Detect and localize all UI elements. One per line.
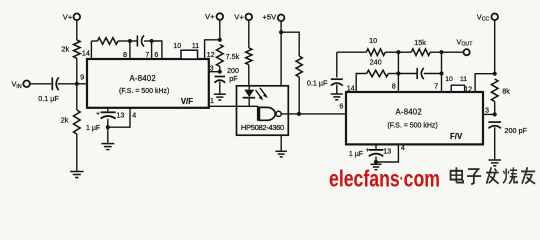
wire node C to pin 6 corner: [152, 41, 162, 59]
svg-text:10: 10: [369, 36, 377, 45]
svg-text:0.1 µF: 0.1 µF: [38, 94, 59, 103]
IC U3 A-8402 F/V converter box: [346, 92, 483, 144]
svg-text:VCC: VCC: [477, 12, 490, 22]
svg-text:7: 7: [145, 50, 149, 59]
wire pin 14 (U1) up to feedback rail: [90, 41, 92, 59]
watermark elecfans.com (red): [329, 166, 440, 192]
resistor R1 2k (V+ to pin 9 node): [74, 40, 81, 58]
terminal V+ (LED supply): [234, 12, 252, 21]
svg-text:A-8402: A-8402: [396, 107, 422, 116]
wire rail corner to C5: [336, 52, 338, 77]
wire pin 4 (U3) to node O: [378, 145, 399, 163]
svg-text:V+: V+: [63, 12, 73, 21]
wire LED cathode to pin 1 line: [248, 99, 250, 107]
wire output rail 1 left: [337, 51, 367, 53]
svg-text:1: 1: [210, 96, 214, 105]
pin 11 label (U3): [460, 76, 467, 83]
pin 7 label (U1): [145, 50, 149, 59]
node H (pull-up / output junction): [297, 112, 301, 116]
svg-text:3: 3: [485, 105, 489, 114]
terminal V+ (U1 reference supply): [205, 12, 223, 21]
svg-text:V/F: V/F: [181, 97, 193, 106]
wire +5V branch to pull-up: [281, 32, 299, 56]
svg-text:A-8402: A-8402: [130, 74, 156, 83]
svg-text:4: 4: [132, 110, 136, 119]
node L (rail2/pin7 junction): [439, 71, 443, 75]
watermark chinese char dian: [451, 167, 464, 182]
svg-text:6: 6: [339, 102, 343, 111]
U3 label F/V: [450, 132, 463, 141]
svg-text:200 pF: 200 pF: [505, 126, 528, 135]
svg-text:+: +: [96, 111, 100, 118]
node J (rail1/Vout junction): [439, 50, 443, 54]
svg-text:10: 10: [445, 76, 453, 83]
wire node J to V_OUT: [442, 51, 464, 53]
capacitor C3 200pF (U1 pin 3): [215, 68, 239, 83]
wire rail 2 / pin 14 (U3): [356, 74, 367, 92]
pin 11 label (U1): [192, 43, 199, 50]
wire pin 4 (U1) to node F: [110, 108, 131, 127]
terminal V_OUT: [457, 37, 474, 55]
svg-text:11: 11: [460, 76, 467, 83]
pin 13 label (U1): [116, 110, 124, 119]
LED light arrow 2: [260, 88, 268, 98]
wire node A to R2: [76, 84, 78, 110]
node A (pin 9 junction): [75, 82, 79, 86]
ground (U3 timing cap): [371, 164, 382, 169]
svg-text:11: 11: [192, 43, 199, 50]
wire R1 to node A: [76, 58, 78, 84]
wire C3 to ground: [219, 82, 221, 94]
pin 6 label (U3): [339, 102, 343, 111]
jumper link pins 10-11 (U3): [451, 85, 464, 92]
capacitor C4 1uF (U1 pin 13, polarized): [86, 111, 116, 133]
pin 3 label (U3): [485, 105, 489, 114]
svg-text:2k: 2k: [61, 116, 69, 125]
optocoupler U2 HP5082-4360 box: [237, 86, 289, 135]
node F (U1 timing cap junction): [106, 125, 110, 129]
wire pin 7 (U1): [151, 41, 153, 59]
LED D1 triangle: [244, 90, 254, 98]
pin 10 label (U3): [445, 76, 453, 83]
svg-text:7: 7: [434, 81, 438, 90]
resistor R8 15k: [411, 38, 430, 56]
wire R2 to ground: [76, 134, 78, 171]
wire V_CC down to node M: [494, 20, 496, 74]
label R10 8k: [502, 86, 510, 95]
label R2 2k: [61, 116, 69, 125]
ground (U3 pin 3 cap): [488, 160, 501, 166]
pin 12 label (U1): [207, 50, 215, 59]
wire V_IN to C1: [30, 83, 51, 85]
ground (optocoupler): [275, 151, 287, 157]
wire C1 to node A: [58, 83, 77, 85]
resistor R4 7.5k: [217, 45, 224, 67]
node E (pin 3 junction, U1): [218, 70, 222, 74]
wire pin 1 (U1) to optocoupler LED cathode: [209, 105, 258, 107]
label R1 2k: [61, 45, 69, 54]
photogate U2 input bar: [257, 107, 260, 121]
resistor R2 2k (pin 9 node to ground): [74, 110, 81, 134]
capacitor C6 (U3 feedback): [417, 68, 424, 79]
wire pin 8 (U3): [397, 74, 399, 93]
wire C8 to ground node: [375, 156, 377, 164]
wire pin 8 (U1): [129, 41, 131, 59]
photogate U2 D-body: [259, 107, 275, 120]
svg-text:14: 14: [82, 49, 90, 58]
svg-text:12: 12: [464, 85, 472, 94]
pin 3 label (U1): [210, 63, 214, 72]
wire pin 7 (U3): [441, 74, 443, 93]
wire R4 to node E: [219, 67, 221, 72]
pin 14 label (U1): [82, 49, 90, 58]
svg-text:4: 4: [401, 143, 405, 152]
svg-text:VOUT: VOUT: [457, 37, 474, 47]
pin 7 label (U3): [434, 81, 438, 90]
watermark chinese char fa: [486, 167, 499, 183]
svg-text:13: 13: [116, 110, 124, 119]
svg-text:+: +: [366, 147, 370, 154]
svg-text:13: 13: [383, 146, 391, 155]
capacitor C2 (U1 feedback): [137, 35, 144, 46]
svg-text:15k: 15k: [414, 38, 426, 47]
op IC U1 A-8402 V/F converter box: [87, 59, 209, 108]
U3 label F.S. = 500 kHz: [387, 123, 437, 130]
svg-text:7.5k: 7.5k: [226, 52, 240, 61]
svg-text:pF: pF: [229, 76, 237, 83]
resistor R6 (gate output pull-up): [296, 56, 302, 77]
LED light arrow 1: [256, 90, 264, 100]
ground (U1 pin 3 cap): [214, 94, 226, 100]
node I (rail1/pin8 junction): [396, 50, 400, 54]
resistor R9 240: [367, 57, 389, 76]
pin 9 label: [80, 73, 84, 82]
node G (+5V branch): [279, 30, 283, 34]
watermark chinese char zi: [467, 169, 481, 184]
U1 label F.S. = 500 kHz: [119, 88, 169, 95]
wire pin 3 stub (U3): [483, 113, 494, 115]
label R4 7.5k: [226, 52, 240, 61]
wire R6 to node H: [298, 77, 300, 114]
wire R9 to node K: [388, 73, 398, 75]
watermark chinese char you: [521, 167, 535, 183]
svg-text:V+: V+: [234, 12, 244, 21]
wire V+ down to node D: [219, 20, 221, 40]
ground (C5): [331, 94, 343, 100]
LED D1 cathode bar: [243, 97, 256, 99]
ground (U1 timing cap): [101, 144, 114, 150]
photogate U2 output bubble: [276, 111, 281, 116]
wire node K to C6: [398, 73, 417, 75]
svg-text:8: 8: [392, 81, 396, 90]
wire R8 to node J: [430, 51, 441, 53]
wire R7 to node D1: [385, 51, 398, 53]
node B (pin 8 junction, U1): [128, 39, 132, 43]
terminal V_IN: [11, 80, 29, 90]
svg-text:6: 6: [154, 50, 158, 59]
pin 14 label (U3): [347, 83, 355, 92]
svg-text:10: 10: [173, 43, 181, 50]
wire pin 13 stub (U1): [107, 108, 109, 112]
node D (V+ / pin 12 / 7.5k junction): [218, 38, 222, 42]
wire C6 to node L: [424, 73, 442, 75]
svg-text:8: 8: [123, 50, 127, 59]
wire pin 9 stub: [77, 83, 88, 85]
U2 label HP5082-4360: [241, 123, 284, 132]
svg-text:elecfans·com: elecfans·com: [329, 166, 440, 192]
svg-text:1 µF: 1 µF: [349, 151, 363, 158]
wire gate output to U3 pin 6: [281, 113, 347, 115]
capacitor C5 0.1uF (decoupling): [307, 78, 343, 87]
wire node I to node K: [397, 52, 399, 73]
svg-text:+5V: +5V: [262, 13, 277, 22]
wire C4 to node F: [107, 119, 109, 143]
capacitor C1 0.1uF (input coupling): [38, 77, 59, 103]
resistor R5 (LED current limit): [246, 48, 252, 65]
resistor R10 8k: [491, 79, 498, 102]
terminal V_CC: [477, 12, 498, 22]
svg-text:1 µF: 1 µF: [86, 125, 100, 132]
svg-text:3: 3: [210, 63, 214, 72]
wire V+ to R5: [248, 20, 250, 48]
svg-text:2k: 2k: [61, 45, 69, 54]
svg-text:VIN: VIN: [11, 80, 21, 90]
resistor R7 10: [366, 36, 385, 56]
watermark chinese char shao: [503, 167, 517, 183]
node N (pin 3 junction, U3): [493, 112, 497, 116]
svg-text:(F.S. = 500 kHz): (F.S. = 500 kHz): [119, 88, 169, 95]
pin 13 label (U3): [383, 146, 391, 155]
svg-text:9: 9: [80, 73, 84, 82]
svg-text:240: 240: [370, 57, 382, 66]
wire node I to R8: [398, 51, 411, 53]
pin 1 label (U1): [210, 96, 214, 105]
wire feedback rail left: [91, 40, 97, 42]
svg-text:HP5082-4360: HP5082-4360: [241, 123, 284, 132]
ground (input divider): [70, 172, 84, 178]
node O (U3 timing cap junction): [374, 160, 378, 164]
U1 label V/F: [181, 97, 193, 106]
capacitor C8 1uF (U3 pin 13, polarized): [349, 147, 383, 158]
pin 8 label (U3): [392, 81, 396, 90]
svg-text:12: 12: [207, 50, 215, 59]
pin 4 label (U3): [401, 143, 405, 152]
LED inside U2 (anode wire): [248, 86, 250, 90]
svg-text:200: 200: [227, 68, 239, 75]
wire node D to pin 12 (U1): [205, 40, 220, 59]
pin 12 label (U3): [464, 85, 472, 94]
terminal V+ (supply for input bias): [63, 12, 80, 21]
wire pin 13 stub (U3): [375, 145, 377, 149]
resistor R3 (U1 feedback): [98, 38, 119, 45]
wire R10 to node N: [494, 102, 496, 115]
capacitor C7 200pF (U3 pin 3): [488, 122, 527, 135]
wire pin 3 stub (U1): [209, 71, 220, 73]
pin 8 label (U1): [123, 50, 127, 59]
svg-text:(F.S. = 500 kHz): (F.S. = 500 kHz): [387, 123, 437, 130]
terminal +5V: [262, 13, 284, 22]
jumper link pins 10-11 (U1): [181, 50, 198, 59]
svg-text:F/V: F/V: [450, 132, 463, 141]
svg-text:0.1 µF: 0.1 µF: [307, 78, 328, 87]
node C (pin 7 junction, U1): [150, 39, 154, 43]
wire C7 to ground: [494, 127, 496, 159]
U1 label A-8402: [130, 74, 156, 83]
pin 10 label (U1): [173, 43, 181, 50]
wire +5V down to gate supply: [280, 21, 282, 86]
pin 6 label (U1): [154, 50, 158, 59]
wire R5 to optocoupler box: [248, 65, 250, 86]
U3 label A-8402: [396, 107, 422, 116]
wire node M to pin 12 (U3): [475, 74, 495, 92]
wire node J to node L: [441, 52, 443, 73]
wire node B to C2: [130, 40, 138, 42]
wire R3 to node B: [118, 40, 130, 42]
svg-text:V+: V+: [205, 12, 215, 21]
svg-text:8k: 8k: [502, 86, 510, 95]
pin 4 label (U1): [132, 110, 136, 119]
wire U2 ground: [280, 136, 282, 152]
node M (Vcc / pin 12 / 8k junction): [493, 72, 497, 76]
wire C5 to ground: [336, 85, 338, 94]
wire V+ to R1: [76, 20, 78, 40]
node K (rail2/pin8 junction): [396, 71, 400, 75]
wire C2 to node C: [144, 40, 152, 42]
